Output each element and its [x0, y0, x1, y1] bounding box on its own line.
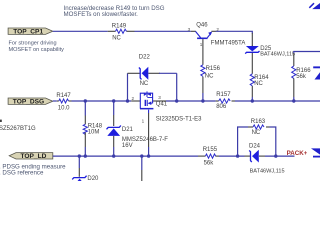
svg-text:BAT46WJ,115: BAT46WJ,115	[250, 169, 285, 175]
svg-text:16V: 16V	[122, 143, 133, 149]
svg-text:NC: NC	[140, 81, 149, 87]
cut-off part number MMSZ5267BT1G	[0, 120, 36, 132]
svg-text:1: 1	[200, 42, 203, 47]
svg-text:R155: R155	[203, 147, 218, 153]
svg-text:TOP_LD: TOP_LD	[21, 153, 47, 160]
svg-text:BAT46WJ,115: BAT46WJ,115	[260, 51, 295, 57]
wire D21 branch	[113, 101, 115, 115]
zener diode D20	[72, 176, 99, 186]
svg-text:3: 3	[188, 27, 191, 32]
svg-text:R157: R157	[216, 92, 231, 98]
svg-text:PACK+: PACK+	[287, 150, 308, 157]
svg-text:806: 806	[216, 104, 227, 110]
wire main DSG bus	[53, 100, 57, 102]
svg-text:10M: 10M	[88, 129, 100, 135]
svg-text:56k: 56k	[204, 160, 215, 166]
resistor R164	[250, 74, 269, 97]
resistor R147	[56, 93, 71, 111]
junction dots on TOP_LD line	[78, 154, 278, 157]
svg-text:TOP_DSG: TOP_DSG	[13, 99, 44, 106]
svg-text:MOSFET on capability: MOSFET on capability	[9, 47, 65, 53]
wire D22 loop left vertical	[127, 73, 129, 101]
wire stub below TOP_LD line	[141, 156, 143, 170]
wire R149 to Q46	[135, 30, 191, 32]
wire TOP_CP1 to R149	[53, 30, 108, 32]
comment: for stronger driving note	[9, 41, 65, 53]
junction dots on DSG bus	[84, 99, 296, 102]
wire D22 loop right vertical	[176, 73, 178, 101]
wire D20 branch	[78, 156, 80, 168]
svg-text:MMSZ5246B-7-F: MMSZ5246B-7-F	[122, 137, 168, 143]
MOSFET Q41	[131, 91, 202, 123]
svg-text:SI2325DS-T1-E3: SI2325DS-T1-E3	[156, 117, 202, 123]
svg-text:Q46: Q46	[196, 22, 208, 28]
comment: increase/decrease note	[64, 5, 165, 18]
off-page connector bottom right	[311, 148, 320, 157]
svg-text:R156: R156	[206, 66, 221, 72]
resistor R148	[83, 123, 103, 147]
resistor R156	[201, 48, 221, 93]
resistor R149	[108, 23, 135, 41]
svg-text:56k: 56k	[296, 74, 307, 80]
svg-text:TOP_CP1: TOP_CP1	[13, 29, 43, 36]
diode D22	[139, 55, 151, 88]
diode D25	[245, 46, 295, 74]
svg-text:R163: R163	[251, 119, 266, 125]
wire D22 loop top	[128, 72, 141, 74]
svg-text:1: 1	[142, 118, 145, 123]
svg-text:2: 2	[216, 27, 219, 32]
comment: PDSG note	[0, 163, 66, 176]
wire Q41 gate down	[148, 113, 150, 147]
svg-text:D21: D21	[122, 127, 134, 133]
wire R156 to bus	[202, 93, 204, 101]
svg-text:D24: D24	[249, 143, 261, 149]
off-page connector middle right	[313, 66, 320, 79]
svg-text:NC: NC	[254, 81, 263, 87]
svg-text:R149: R149	[112, 23, 127, 29]
wire R166 to bus	[293, 97, 295, 101]
wire R166 riser to right edge	[294, 52, 320, 54]
resistor R157	[216, 92, 235, 110]
svg-text:D20: D20	[87, 176, 99, 181]
wire R164 to bus	[251, 97, 253, 101]
net label TOP_CP1	[8, 28, 53, 36]
svg-text:NC: NC	[252, 130, 261, 136]
svg-text:MOSFETs on slower/faster.: MOSFETs on slower/faster.	[64, 11, 139, 18]
diode D24	[245, 143, 285, 174]
svg-text:2: 2	[132, 96, 135, 101]
svg-text:R166: R166	[296, 68, 311, 74]
svg-text:D22: D22	[139, 55, 151, 61]
resistor R163	[248, 119, 270, 136]
zener diode D21	[107, 126, 169, 150]
net label TOP_LD	[9, 153, 53, 161]
svg-text:3: 3	[158, 95, 161, 100]
svg-text:. DSG reference: . DSG reference	[0, 170, 44, 177]
wire R163 bypass branch	[238, 127, 248, 156]
svg-text:NC: NC	[205, 73, 214, 79]
svg-text:NC: NC	[112, 36, 121, 42]
net label TOP_DSG	[8, 98, 53, 106]
resistor R166	[292, 66, 312, 97]
resistor R155	[198, 147, 219, 166]
svg-text:For stronger driving: For stronger driving	[9, 41, 57, 47]
wire R148 branch	[84, 101, 86, 116]
off-page connector top right	[309, 3, 320, 9]
wire TOP_LD line	[53, 155, 198, 157]
svg-text:10.0: 10.0	[58, 105, 70, 111]
wire Q46 to corner, down to D25	[216, 31, 253, 33]
svg-text:FMMT495TA: FMMT495TA	[211, 40, 246, 46]
svg-text:SZ5267BT1G: SZ5267BT1G	[0, 126, 36, 132]
transistor Q46	[188, 22, 246, 48]
svg-text:R147: R147	[56, 93, 71, 99]
svg-text:Q41: Q41	[156, 101, 168, 107]
